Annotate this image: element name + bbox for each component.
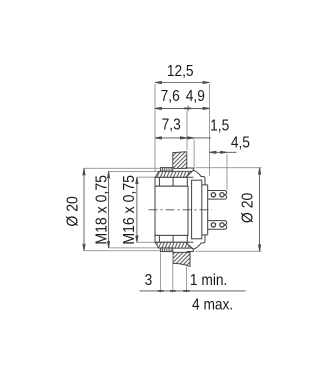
svg-text:M16 x 0,75: M16 x 0,75 <box>120 175 138 245</box>
extension lines left <box>84 167 160 169</box>
svg-text:Ø 20: Ø 20 <box>238 193 256 224</box>
svg-text:1 min.: 1 min. <box>190 271 227 289</box>
right vertical dim <box>259 168 261 252</box>
svg-text:Ø 20: Ø 20 <box>64 196 82 227</box>
knurled nut faces <box>161 168 173 252</box>
panel section bottom (hatched) <box>173 252 190 266</box>
dim line 4,5 <box>210 151 237 153</box>
dim line 7,6 / 4,9 <box>155 107 210 109</box>
dim line 12,5 <box>155 82 210 84</box>
svg-text:3: 3 <box>145 271 153 289</box>
svg-text:7,6: 7,6 <box>161 87 180 105</box>
svg-text:4,5: 4,5 <box>231 134 250 152</box>
centerline <box>149 209 213 211</box>
svg-text:4,9: 4,9 <box>186 87 205 105</box>
cap column lines <box>202 185 208 235</box>
rear insert <box>192 180 202 239</box>
dim line 7,3 + 1,5 <box>155 137 211 139</box>
extension lines top <box>154 84 156 172</box>
rear flange and cap bottom profile <box>186 242 194 251</box>
solder lug upper <box>208 191 227 200</box>
M18 thread band top (diagonal strokes) <box>155 171 192 248</box>
rear flange and cap top profile <box>186 168 208 252</box>
left vertical dims <box>83 168 85 251</box>
extension lines bottom <box>160 252 162 292</box>
panel section top (hatched) <box>173 152 187 169</box>
bottom dim line 3 / 1min 4max <box>140 290 246 292</box>
svg-text:12,5: 12,5 <box>167 62 194 80</box>
svg-text:4 max.: 4 max. <box>192 296 233 314</box>
svg-text:7,3: 7,3 <box>162 115 181 133</box>
svg-text:1,5: 1,5 <box>210 116 229 134</box>
svg-text:M18 x 0,75: M18 x 0,75 <box>92 175 110 245</box>
solder lug lower <box>208 221 227 230</box>
extension lines right <box>196 167 262 169</box>
cap right edge between lugs <box>207 199 209 221</box>
front sleeve bands <box>155 177 188 242</box>
